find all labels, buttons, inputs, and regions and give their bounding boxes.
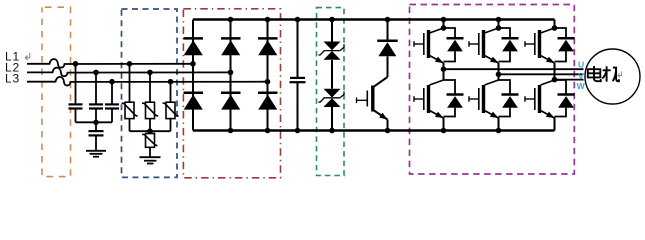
svg-text:W: W [577,81,586,91]
svg-text:L3: L3 [5,72,20,86]
svg-text:U: U [578,59,584,69]
svg-text:V: V [578,71,584,81]
